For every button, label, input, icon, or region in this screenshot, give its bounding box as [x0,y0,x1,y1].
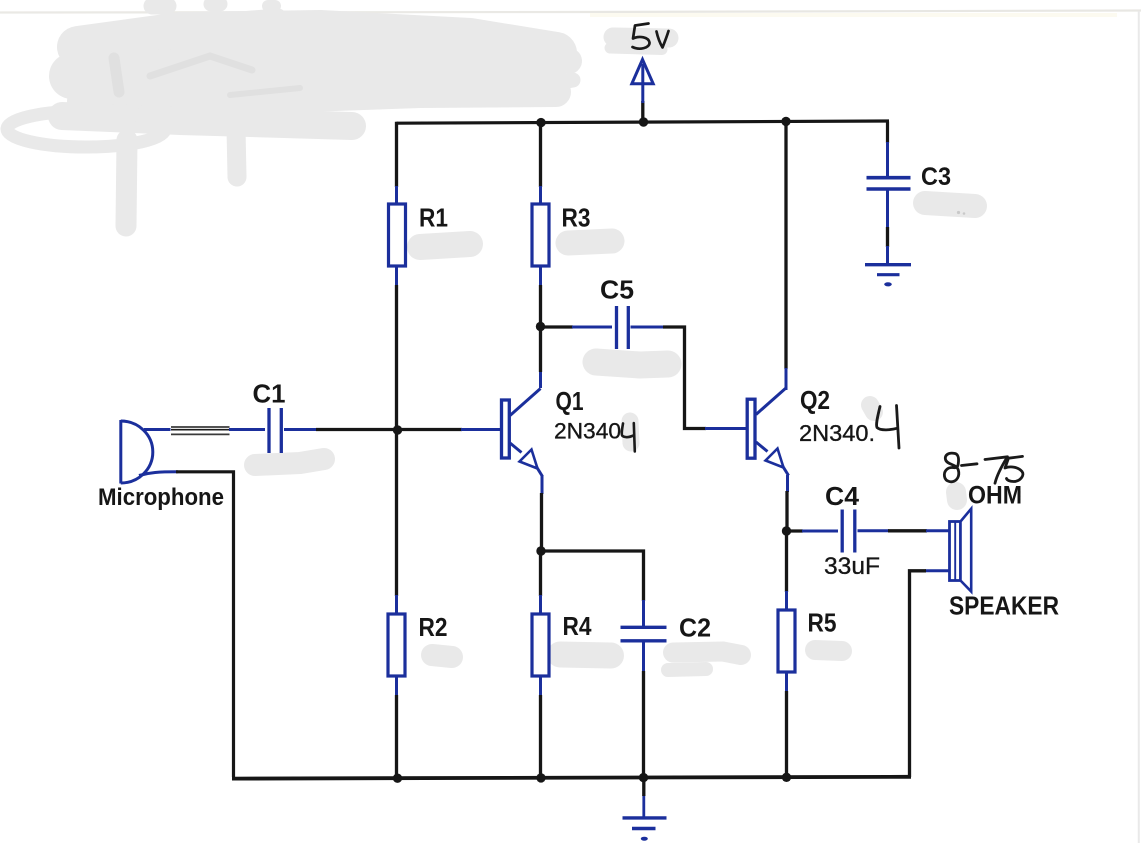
junction node Q1 emitter / R4 / C2 [536,546,545,555]
eraser smudge near 5v [610,37,669,50]
wire: C3 to ground [886,191,889,229]
wire: 5V top rail [397,121,890,123]
junction dot rail / R5 [782,773,791,782]
svg-text:Microphone: Microphone [98,484,224,511]
eraser smudge under C3 [925,203,975,206]
wire: Q2 collector from rail [784,120,787,369]
wire: node to C2 branch [541,551,644,601]
svg-text:R4: R4 [563,611,592,641]
resistor R5 [778,610,795,672]
wire: C2 bottom to rail [642,643,645,673]
wire: R4 top lead [539,551,542,596]
page scan line [0,11,580,14]
hatch marks on mic wire [171,425,230,436]
svg-text:C4: C4 [825,481,860,511]
wire: R2 top lead [395,430,398,597]
eraser smudge under R3 [568,241,612,243]
resistor R1 [389,204,406,266]
resistor R4 [532,614,549,676]
wire: C3 branch from rail [886,122,889,144]
wire: Q1 collector up to C5 node [539,371,542,388]
junction dot rail / R4 [536,773,545,782]
svg-text:R2: R2 [419,612,448,642]
wire: microphone bottom return [139,472,178,476]
eraser smudge under C2 [673,652,741,656]
svg-text:R5: R5 [808,608,837,638]
capacitor C4 [842,510,855,553]
svg-text:C5: C5 [600,275,634,305]
wire: node to C4 [787,529,804,532]
junction dot rail / ground [639,773,648,782]
eraser smudge under R2 [432,655,452,657]
handwritten 4 (Q1) [622,423,635,452]
wire: speaker return [925,569,950,572]
junction dot top rail / Q2 collector [781,117,790,126]
eraser smudge under R4 [560,655,611,656]
svg-text:R3: R3 [562,203,591,233]
wire: R2 bottom lead [395,676,398,696]
eraser smudge under C1 [255,459,324,465]
wire: C5 to Q2 base [631,326,665,329]
handwritten 4 (Q2) [877,406,899,449]
svg-text:C1: C1 [253,379,286,409]
wire: R3 bottom lead [539,266,542,286]
wire: R5 top lead [785,531,788,592]
svg-text:OHM: OHM [968,482,1022,510]
svg-text:33uF: 33uF [824,553,880,580]
ground (bottom) [623,795,667,829]
junction node at R1/R2/base [393,425,402,434]
microphone [121,420,153,484]
capacitor C1 [269,408,281,453]
svg-text:C3: C3 [921,163,951,191]
capacitor C2 [621,627,667,641]
eraser smudges top-left [7,4,573,226]
transistor Q1 [502,389,543,477]
svg-text:2N340: 2N340 [554,419,621,444]
label 5v (handwritten) [633,24,669,49]
handwritten 8-75 [944,453,1023,483]
wire: node to C5 [541,325,574,328]
wire: R1 top lead [395,122,398,187]
wire: R4 bottom lead [539,676,542,696]
junction dot rail / R2 [393,774,402,783]
wire: node to Q1 base [397,428,463,431]
ground (under C3) [865,265,911,275]
wire: Q1 emitter to node [541,476,544,495]
junction dot top rail / R3 column [536,118,545,127]
junction node at Q1 collector / C5 [536,322,545,331]
eraser smudge left of OHM [956,492,957,500]
svg-text:Q1: Q1 [556,386,584,416]
wire: R5 bottom lead [785,672,788,692]
junction dot top rail / 5V [639,117,648,126]
wire: microphone to C1 [144,428,173,431]
power symbol 5V arrow [632,60,653,123]
junction node Q2 emitter / C4 / R5 [782,526,791,535]
eraser smudge near Q2 label [870,405,874,412]
capacitor C5 [617,306,629,349]
wire: ground rail (bottom) [232,777,911,779]
eraser smudge under R1 [420,244,470,247]
svg-text:2N340.: 2N340. [799,420,875,446]
darker pencil traces inside smudge [114,56,300,95]
wire: C4 to speaker [858,529,890,532]
capacitor C3 [867,178,911,189]
resistor R3 [532,204,549,266]
wire: R1 bottom lead [395,266,398,286]
eraser smudge behind Q1 handwritten 4 [630,421,631,443]
speaker [950,509,972,592]
wire: C1 to base node [284,428,317,431]
eraser smudge under R5 [815,650,842,651]
wire: R3 top lead [539,121,542,187]
eraser smudge under C5 [596,362,668,365]
wire: Q2 emitter down to C4 node [786,475,789,492]
svg-text:R1: R1 [419,203,448,233]
resistor R2 [388,614,405,676]
svg-text:SPEAKER: SPEAKER [949,591,1059,621]
transistor Q2 [747,388,788,476]
svg-text:C2: C2 [679,613,711,643]
svg-text:Q2: Q2 [800,385,830,415]
